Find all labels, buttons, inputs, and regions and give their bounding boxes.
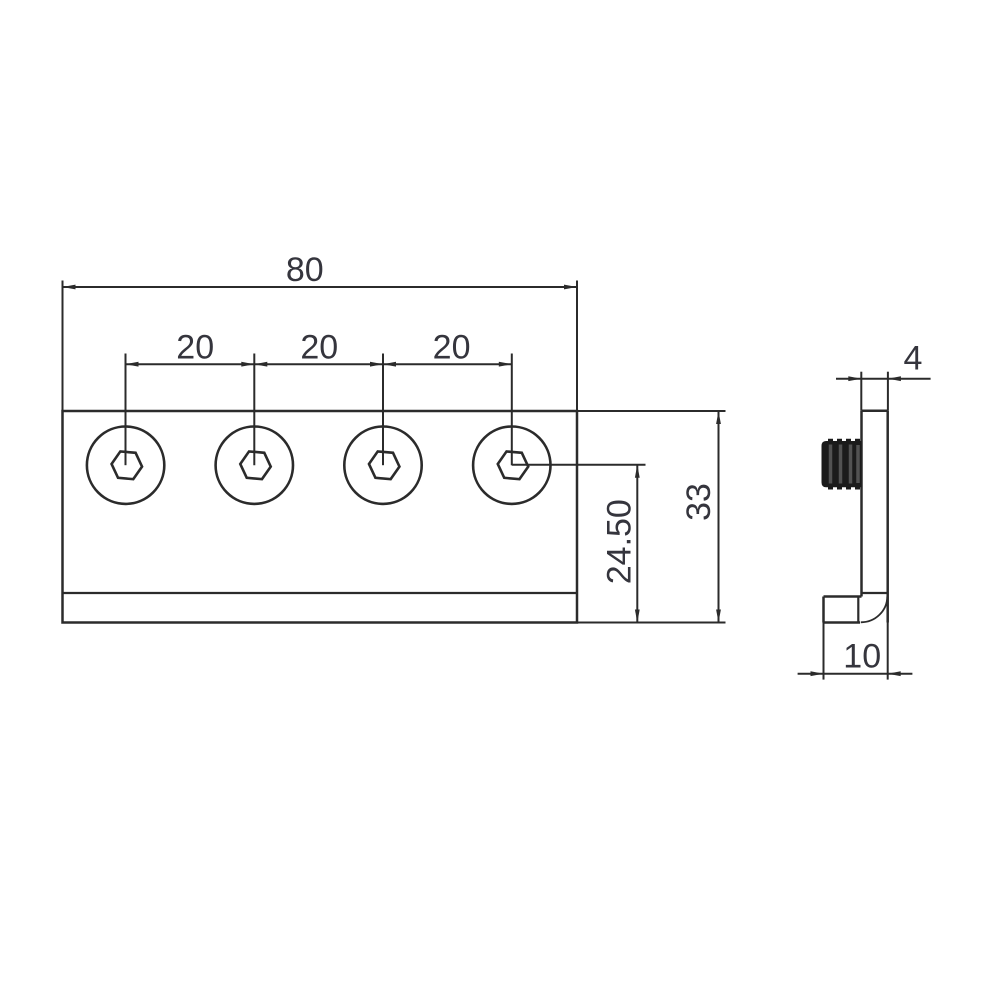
dim 33 / 24.50 extension line bottom (577, 622, 726, 624)
dim 80 arrow left (63, 285, 76, 290)
side view foot bottom edge (824, 621, 861, 624)
side view foot left edge (822, 597, 825, 623)
dim 4 extension line left (860, 372, 862, 411)
svg-text:10: 10 (843, 638, 881, 676)
hole 2 outer circle (216, 427, 293, 504)
dim 80 extension line left (62, 281, 64, 412)
side view foot top edge (824, 595, 862, 598)
dim 4 arrow right (outside pointing left) (888, 376, 901, 381)
dim 10 extension line right (887, 623, 889, 680)
svg-text:24.50: 24.50 (601, 499, 639, 584)
dim 80 extension line right (576, 281, 578, 412)
svg-text:33: 33 (680, 483, 718, 521)
side view wall left edge (860, 411, 863, 597)
dim 20 arrow at tick1 (126, 362, 139, 367)
dim 33 arrow down (716, 610, 721, 623)
dim 80 dimension line (63, 286, 578, 288)
dim 24.50 arrow up (635, 465, 640, 478)
hole 4 outer circle (473, 427, 550, 504)
dim 20 tick line 3 / hole 3 center line (382, 354, 384, 466)
dim 80 arrow right (564, 285, 577, 290)
dim 24.50 dimension line (636, 465, 638, 623)
plate outline front view (63, 411, 578, 623)
hole 3 outer circle (344, 427, 421, 504)
dim 10 extension line left (823, 623, 825, 680)
dim 33 dimension line (718, 411, 720, 623)
svg-text:20: 20 (300, 329, 338, 367)
svg-text:80: 80 (286, 251, 324, 289)
side view fillet arc (861, 597, 888, 623)
dim 33 extension line top (577, 410, 726, 412)
plate step line (63, 592, 578, 594)
hole 1 hex socket (112, 451, 142, 479)
dim 20 tick line 1 / hole 1 center line (125, 354, 127, 466)
threaded stud (set screw) on side view (822, 439, 862, 490)
dim 4 arrow left (outside pointing right) (848, 376, 861, 381)
dim 10 arrow right (outside pointing left) (888, 671, 901, 676)
dim 4 dimension line (836, 378, 931, 380)
hole 4 hex socket (498, 451, 528, 479)
dim 20 tick line 2 / hole 2 center line (253, 354, 255, 466)
dim 10 dimension line (798, 673, 913, 675)
dim 10 arrow left (outside pointing right) (811, 671, 824, 676)
dim 24.50 arrow down (635, 610, 640, 623)
hole 1 outer circle (87, 427, 164, 504)
dim 20 dimension line (126, 363, 512, 365)
svg-text:20: 20 (433, 329, 471, 367)
svg-text:4: 4 (904, 340, 923, 378)
dim 20 tick line 4 / hole 4 center line (511, 354, 513, 466)
dim 20 arrows at tick2 (241, 362, 267, 367)
dim 24.50 leader line from hole 4 center (512, 464, 646, 466)
dim 20 arrows at tick3 (370, 362, 396, 367)
side view step line A (862, 592, 888, 594)
side view wall right edge (886, 411, 889, 623)
dim 33 arrow up (716, 411, 721, 424)
side view inner vertical edge (857, 598, 859, 623)
svg-text:20: 20 (176, 329, 214, 367)
hole 3 hex socket (369, 451, 399, 479)
side view wall top edge (862, 409, 888, 412)
dim 4 extension line right (887, 372, 889, 411)
hole 2 hex socket (240, 451, 270, 479)
dim 20 arrow at tick4 (499, 362, 512, 367)
